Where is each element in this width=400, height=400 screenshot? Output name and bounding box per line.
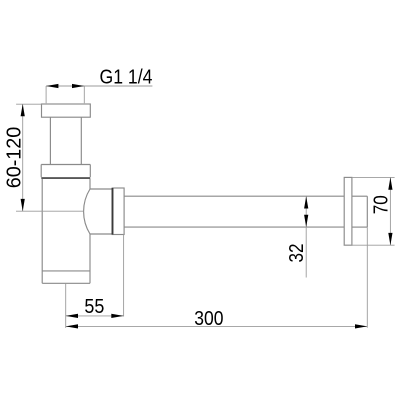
svg-text:32: 32 xyxy=(286,244,308,263)
svg-text:60-120: 60-120 xyxy=(3,127,25,189)
svg-text:300: 300 xyxy=(194,308,223,330)
svg-text:G1 1/4: G1 1/4 xyxy=(100,67,153,89)
svg-text:70: 70 xyxy=(371,195,393,214)
svg-text:55: 55 xyxy=(84,296,104,318)
